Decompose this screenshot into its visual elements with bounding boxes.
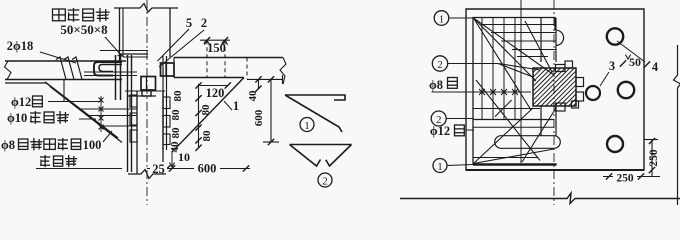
svg-text:2: 2 (437, 59, 443, 71)
dim 150 at top of right beam (200, 39, 230, 41)
column bar hole circle right (618, 82, 634, 98)
column bar hole circle bottom-right (607, 136, 623, 152)
note text 每侧两块 (4 CJK glyphs) (53, 9, 66, 21)
label 4 with leader and dim 50 (617, 41, 645, 62)
plan long vertical line x=521 (520, 0, 522, 163)
lower precast column right edge (162, 91, 164, 174)
bottom dimension line 25/600 (147, 168, 250, 170)
joint lines at lower column top (125, 90, 165, 92)
svg-text:50: 50 (629, 55, 641, 69)
steel plate 50x50x8 lower at joint (141, 77, 156, 91)
lower precast column left edge (136, 91, 138, 174)
plan corbel wing top edge (473, 18, 555, 165)
svg-text:1: 1 (233, 99, 239, 113)
right beam top edge with end break (174, 57, 283, 59)
shear keys on lower column right side (163, 97, 170, 109)
plan stirrup verticals (481, 18, 483, 120)
svg-text:2: 2 (201, 16, 207, 30)
shear keys on lower column left side (130, 95, 137, 107)
right beam left face (173, 58, 175, 78)
dim 10 with down arrow (171, 151, 173, 167)
svg-text:1: 1 (437, 161, 443, 173)
svg-text:10: 10 (178, 150, 190, 164)
upper column right edge (169, 8, 171, 57)
plan bottom grout box with slot (540, 106, 542, 136)
circled 2 left of plan with leader (432, 56, 447, 71)
svg-text:5: 5 (186, 16, 192, 30)
circled 1 top-left of plan with leader (434, 11, 449, 26)
circled 1 label (300, 118, 314, 132)
left beam left-end break zigzag (5, 61, 12, 80)
svg-text:40: 40 (247, 90, 259, 102)
circled 1 bottom-left of plan with leader (433, 159, 447, 173)
svg-text:ϕ8: ϕ8 (429, 78, 443, 92)
dim 120 under right beam (199, 85, 228, 87)
label 柱主筋 with underline leader (40, 155, 50, 167)
svg-text:3: 3 (609, 59, 615, 73)
svg-text:1: 1 (304, 120, 310, 132)
embedded plate verticals at beam end (115, 55, 117, 100)
dim 40 right vertical (258, 79, 260, 88)
vertical dimension chain 80/80/80/80/40 (198, 84, 200, 148)
left beam bottom edge (5, 79, 122, 81)
shear key bumps around column section (556, 65, 566, 72)
svg-text:ϕ12: ϕ12 (430, 124, 450, 138)
erection bar lines from haunch (81, 108, 137, 110)
2ϕ18 steep bent bars with top hooks in left beam (56, 57, 66, 80)
svg-text:25: 25 (152, 162, 165, 176)
plan outer rectangle (466, 9, 644, 170)
svg-text:2: 2 (322, 176, 328, 188)
dim 250 vertical right (644, 139, 658, 141)
left haunch double diagonal (45, 82, 118, 138)
svg-text:2ϕ18: 2ϕ18 (7, 39, 34, 53)
plan fan bars bottom-left (474, 108, 534, 164)
plan centerline (dash-dot) (553, 0, 555, 205)
foundation break line bottom with zigzag (400, 193, 680, 204)
dimension extension line at right beam bottom (247, 78, 283, 80)
bar shape symbol 2 : V stirrup with hooks (290, 144, 352, 146)
svg-text:80: 80 (170, 109, 182, 121)
svg-text:80: 80 (170, 127, 182, 139)
plan long diagonal bottom-left b (522, 108, 556, 162)
plan wing mid line (473, 119, 554, 121)
column main bars left pair (127, 55, 129, 172)
plan top grout box with side bulge (540, 18, 542, 62)
svg-text:4: 4 (652, 60, 659, 74)
bar shape symbol 1 : bent bar with hooks (285, 95, 345, 100)
short joint line left of column (100, 50, 148, 52)
svg-text:80: 80 (200, 104, 212, 116)
svg-text:80: 80 (201, 130, 213, 142)
svg-text:150: 150 (207, 41, 226, 55)
corbel stirrup hanger (63, 80, 65, 101)
right section cut line with break (674, 45, 680, 205)
dim text 25 (150, 162, 167, 173)
plan top-side stirrup horizontals (481, 24, 556, 26)
column centerline (dash-dot) (146, 0, 148, 205)
upper column top break line with zigzag (114, 4, 178, 13)
column bar hole circle top-right (607, 28, 623, 44)
right beam bottom edge (174, 77, 244, 79)
svg-text:250: 250 (616, 173, 634, 185)
column main bars right pair (162, 56, 164, 150)
dashed witness lines through right beam (206, 40, 208, 77)
plan wing bottom thick line (473, 163, 557, 165)
right haunch diagonal (172, 78, 244, 153)
dim 250 horizontal bottom-right (603, 176, 660, 178)
plan long diagonal bottom-left a (476, 80, 540, 161)
circled 2 label (318, 173, 332, 187)
svg-text:120: 120 (206, 86, 225, 100)
svg-text:1: 1 (439, 14, 445, 26)
dim text 600 bottom (194, 162, 220, 174)
svg-text:50×50×8: 50×50×8 (60, 22, 108, 37)
steel plate upper at joint (161, 63, 175, 76)
bearing seat claw plate at beam end (94, 62, 122, 76)
stirrup spacing tick line (4 stirrups at 100) (100, 96, 102, 132)
plan fan bars from top-left corner (474, 18, 555, 75)
lower column bottom break line with zigzag (128, 170, 166, 179)
svg-text:ϕ10: ϕ10 (7, 111, 27, 125)
svg-text:600: 600 (253, 109, 265, 126)
beam bars passing through joint (84, 71, 137, 73)
plan diagonal near centerline (525, 21, 552, 72)
left beam top edge (5, 60, 126, 62)
plan bottom-side stirrup horizontals (473, 108, 540, 110)
svg-text:250: 250 (648, 149, 660, 167)
svg-text:ϕ12: ϕ12 (11, 95, 31, 109)
joint horizontal lines under upper column (120, 53, 149, 55)
plan outer bottom edge thick (466, 169, 644, 171)
plan hatched column section (533, 68, 576, 106)
upper column left edge (double line) (119, 8, 121, 61)
circled 2 lower-left of plan with leader (431, 111, 446, 126)
svg-text:80: 80 (172, 90, 184, 102)
svg-text:600: 600 (198, 162, 217, 176)
column bar hole circle center-right (586, 86, 600, 100)
plan fan bars from circled-2 leader (498, 64, 533, 78)
left beam lower slab line (5, 82, 47, 84)
svg-text:ϕ8: ϕ8 (1, 138, 15, 152)
dim 600 right vertical (270, 79, 272, 142)
svg-text:100: 100 (83, 138, 102, 152)
